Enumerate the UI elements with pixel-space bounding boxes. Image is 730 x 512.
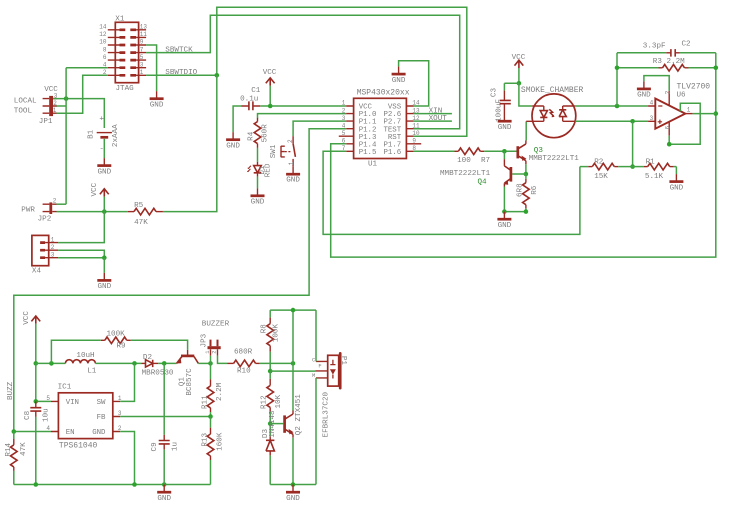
resistor R13 160K <box>202 417 225 461</box>
svg-text:M: M <box>312 373 315 379</box>
svg-text:VCC: VCC <box>91 182 99 196</box>
LED D1 RED <box>247 162 272 177</box>
svg-text:MMBT2222LT1: MMBT2222LT1 <box>440 170 491 178</box>
wire FB pin to divider <box>120 416 210 418</box>
piezo P1 EFBRL37C20 <box>312 353 347 388</box>
capacitor C2 3.3pF <box>617 41 716 57</box>
wire XIN from U1 pin 13 <box>414 113 452 115</box>
svg-text:R5: R5 <box>134 202 144 210</box>
svg-text:10uH: 10uH <box>76 352 94 360</box>
wire op-amp V- pin 6 feedback loop <box>669 103 700 144</box>
wire U1 P1.5 to R2 rail <box>323 151 580 234</box>
wire U1 P1.2 to buzzer enable net BUZZ <box>14 129 346 432</box>
wire battery minus to ground <box>103 139 105 158</box>
svg-text:GND: GND <box>286 495 300 503</box>
svg-text:1: 1 <box>53 107 57 114</box>
wire C1 left to ground <box>233 106 241 132</box>
wire C8 to ground rail <box>35 417 37 485</box>
node Q2 emitter ground <box>291 482 296 487</box>
svg-text:EFBRL37C20: EFBRL37C20 <box>323 391 331 437</box>
svg-text:12: 12 <box>99 31 107 38</box>
wire VCC node to C3 <box>504 83 519 90</box>
svg-text:10u: 10u <box>43 408 51 422</box>
pin header JP3 BUZZER <box>201 321 230 356</box>
svg-text:10K: 10K <box>275 394 283 408</box>
svg-text:TLV2700: TLV2700 <box>677 83 711 92</box>
wire VCC stem <box>103 197 105 212</box>
svg-text:Q3: Q3 <box>534 147 544 155</box>
svg-text:Q2 ZTX451: Q2 ZTX451 <box>295 394 303 435</box>
svg-text:-: - <box>99 145 104 153</box>
svg-text:VIN: VIN <box>66 399 79 407</box>
svg-text:R2: R2 <box>594 158 604 166</box>
wire X1 pin 9 to ground <box>146 45 157 91</box>
capacitor C1 0.1u <box>240 87 261 110</box>
svg-text:GND: GND <box>498 124 512 132</box>
svg-text:3: 3 <box>51 251 55 258</box>
svg-text:10: 10 <box>99 39 107 46</box>
resistor R2 15K <box>580 158 633 181</box>
resistor R3 2.2M <box>617 58 716 71</box>
capacitor C8 10u <box>24 401 50 422</box>
svg-text:2: 2 <box>51 244 55 251</box>
node ground rail right <box>524 209 529 214</box>
wire VCC to X4 pin 1 <box>58 212 104 243</box>
svg-text:SBWTDIO: SBWTDIO <box>165 69 197 77</box>
power symbol VCC at C1 <box>263 69 277 86</box>
wire JP1 pin 2 to VCC vertical <box>57 105 67 107</box>
svg-text:10: 10 <box>412 130 420 137</box>
diode D2 MBR0530 <box>141 354 174 378</box>
svg-text:RED: RED <box>264 163 272 177</box>
ground under B1 <box>97 158 111 176</box>
microcontroller U1 MSP430x20xx <box>339 89 421 169</box>
svg-text:47K: 47K <box>134 219 148 227</box>
node EN / BUZZ / R14 <box>12 429 17 434</box>
svg-text:1: 1 <box>205 350 211 353</box>
svg-text:5.1K: 5.1K <box>645 173 664 181</box>
node ground rail left <box>502 209 507 214</box>
node C8 / VIN <box>34 399 39 404</box>
svg-text:BUZZ: BUZZ <box>7 381 15 400</box>
svg-text:1: 1 <box>342 100 346 107</box>
svg-text:P1.5: P1.5 <box>359 149 377 157</box>
resistor R11 2.2M <box>202 363 225 412</box>
node Q3 base / Q4 collector <box>502 149 507 154</box>
transistor Q4 MMBT2222LT1 <box>440 159 511 186</box>
svg-text:0.1u: 0.1u <box>240 96 258 104</box>
wire JP3 pin 2 to R10 <box>218 356 228 364</box>
node R9 branch <box>49 361 54 366</box>
svg-text:560R: 560R <box>261 124 269 143</box>
node R3 left <box>615 66 620 71</box>
svg-text:6: 6 <box>103 54 107 61</box>
resistor R7 100 <box>455 148 491 165</box>
capacitor C9 1u <box>151 363 180 451</box>
svg-text:GND: GND <box>251 199 265 207</box>
resistor R8 100K <box>261 318 281 352</box>
wire JP3 pin 1 stub <box>210 356 212 364</box>
wire U1 P1.6 to R7 <box>414 150 455 152</box>
svg-text:VCC: VCC <box>44 86 58 94</box>
wire EN pin to BUZZ net <box>14 431 51 433</box>
svg-text:GND: GND <box>637 92 651 100</box>
svg-text:4: 4 <box>650 100 654 107</box>
svg-text:U6: U6 <box>677 92 687 100</box>
wire R14 to ground rail <box>13 471 15 485</box>
ground under Q4 <box>497 212 511 230</box>
ground under X4 <box>97 273 111 291</box>
power symbol VCC at JP2 <box>91 182 109 196</box>
resistor R9 100K <box>101 330 131 350</box>
node VCC / U1 pin1 <box>268 104 273 109</box>
wire SBWTDIO from X1 pin 1 to U1 RST pin 10 <box>146 7 467 136</box>
wire feedback right vertical to output <box>715 53 717 114</box>
diode D3 1N4148 <box>262 410 277 455</box>
wire D1 to ground <box>257 177 259 189</box>
connector X1 <box>99 15 147 93</box>
svg-text:C3: C3 <box>490 88 498 98</box>
wire base node to Q2 base <box>270 423 283 425</box>
svg-text:R12: R12 <box>261 395 269 409</box>
wire R10 to Q2 collector node <box>260 362 293 364</box>
svg-text:3: 3 <box>140 61 144 68</box>
wire Q1 collector to JP3 <box>198 362 210 364</box>
node R10 / Q2 collector <box>291 361 296 366</box>
wire collector node loop top <box>270 310 316 363</box>
wire JP2 pin 1 to R5 <box>57 211 128 213</box>
node X4 ground junction <box>102 255 107 260</box>
wire VIN to VCC node <box>36 400 51 402</box>
svg-text:TOOL: TOOL <box>14 107 33 115</box>
wire U1 P1.4 to op-amp output rail <box>331 114 716 258</box>
node JP1 pin 3 / VCC <box>64 96 69 101</box>
transistor Q1 BC857C <box>176 350 199 396</box>
svg-text:100: 100 <box>457 157 471 165</box>
resistor R6 6R8 <box>516 174 539 208</box>
svg-text:14: 14 <box>99 24 107 31</box>
wire bottom ground rail <box>14 484 211 486</box>
svg-text:D2: D2 <box>143 354 153 362</box>
ground under C9 <box>157 485 171 504</box>
svg-text:B1: B1 <box>88 129 96 139</box>
svg-text:JTAG: JTAG <box>116 85 135 93</box>
wire R9 to Q1 base <box>131 340 188 350</box>
wire Q4 emitter to ground rail <box>503 187 505 212</box>
svg-text:3: 3 <box>342 115 346 122</box>
wire feedback left vertical <box>616 53 618 106</box>
svg-text:C8: C8 <box>24 410 32 420</box>
wire C9 to ground rail <box>163 450 165 485</box>
wire buzzer ground rail <box>270 484 316 486</box>
ground at op-amp pin 2 <box>637 81 651 99</box>
svg-text:R11: R11 <box>202 395 210 409</box>
wire R12 to Q2 base node <box>269 412 271 424</box>
wire R8 bottom to feedback node <box>269 352 271 371</box>
wire Q4 base to Q3 emitter <box>512 173 526 175</box>
svg-text:Q4: Q4 <box>478 178 488 186</box>
wire op-amp output <box>693 113 716 115</box>
resistor R5 47K <box>128 202 163 227</box>
svg-text:47K: 47K <box>20 442 28 456</box>
node VCC rail <box>34 361 39 366</box>
svg-text:R13: R13 <box>202 433 210 447</box>
resistor R12 10K <box>261 379 283 412</box>
svg-text:GND: GND <box>392 77 406 85</box>
svg-text:GND: GND <box>157 495 171 503</box>
node divider tap pin 3 <box>630 119 635 124</box>
svg-text:1: 1 <box>140 69 144 76</box>
svg-text:FB: FB <box>97 414 106 422</box>
node feedback tap pin 4 <box>615 104 620 109</box>
svg-text:2: 2 <box>53 198 57 205</box>
wire U1 VSS pin 14 to ground <box>399 61 429 106</box>
svg-text:SBWTCK: SBWTCK <box>165 47 193 55</box>
svg-text:11: 11 <box>412 122 420 129</box>
svg-text:MSP430x20xx: MSP430x20xx <box>357 89 410 98</box>
svg-text:SW1: SW1 <box>270 144 278 158</box>
svg-text:R8: R8 <box>261 324 269 334</box>
svg-text:C9: C9 <box>151 442 159 452</box>
svg-text:P1: P1 <box>339 356 347 366</box>
wire X4 pin 3 to ground node <box>58 257 104 259</box>
wire VCC stem to rail <box>35 324 37 364</box>
power symbol VCC at smoke chamber <box>512 54 526 68</box>
wire feedback node to piezo F <box>270 370 315 372</box>
svg-text:R6: R6 <box>531 185 539 195</box>
svg-text:2.2M: 2.2M <box>216 382 224 401</box>
node pin 6 loop <box>667 142 672 147</box>
svg-text:5: 5 <box>140 54 144 61</box>
inductor L1 10uH <box>65 352 96 375</box>
svg-text:6R8: 6R8 <box>516 183 524 197</box>
svg-text:IC1: IC1 <box>58 384 72 392</box>
svg-text:5: 5 <box>342 130 346 137</box>
wire feedback node to R12 <box>269 371 271 379</box>
ground at R1 <box>669 174 683 193</box>
svg-text:TPS61040: TPS61040 <box>59 441 98 450</box>
svg-text:VCC: VCC <box>23 311 31 325</box>
svg-text:F: F <box>318 363 321 369</box>
wire JP1 pin 3 to battery plus <box>53 99 104 128</box>
resistor R10 680R <box>227 349 259 376</box>
op-amp U6 TLV2700 <box>648 83 710 136</box>
svg-text:LOCAL: LOCAL <box>14 97 37 105</box>
power symbol VCC at boost converter <box>23 311 40 325</box>
node FB junction <box>208 414 213 419</box>
node JP3 pin 1 <box>208 361 213 366</box>
svg-text:GND: GND <box>226 143 240 151</box>
wire R1 right to ground <box>675 167 677 175</box>
svg-text:R7: R7 <box>481 157 490 165</box>
svg-text:GND: GND <box>286 177 300 185</box>
node Q3 emitter / Q4 base <box>524 172 529 177</box>
wire Q4 collector up to base node <box>503 151 505 159</box>
wire loop top to piezo C <box>315 310 317 361</box>
wire RST pull-up to R5 <box>163 75 217 211</box>
node loop top <box>291 308 296 313</box>
svg-text:11: 11 <box>140 31 148 38</box>
wire SW pin to L1-D2 node <box>120 363 134 401</box>
svg-text:EN: EN <box>66 429 75 437</box>
ground under SW1 <box>286 167 300 185</box>
svg-text:MBR0530: MBR0530 <box>142 370 174 378</box>
svg-text:R3 2.2M: R3 2.2M <box>653 58 685 66</box>
node C8 ground <box>34 482 39 487</box>
wire C1 right to U1 VCC pin 1 <box>260 105 346 107</box>
wire smoke chamber photodiode to op-amp pin 4 <box>575 105 648 107</box>
svg-text:GND: GND <box>670 185 684 193</box>
svg-text:X4: X4 <box>32 267 42 275</box>
svg-text:1: 1 <box>51 236 55 243</box>
wire op-amp V+ pin 2 to ground <box>644 76 669 91</box>
wire Q2 emitter to ground rail <box>292 438 294 485</box>
svg-text:9: 9 <box>412 138 416 145</box>
wire R13 to ground rail <box>210 460 212 485</box>
svg-text:1u: 1u <box>172 442 180 451</box>
svg-text:XOUT: XOUT <box>429 115 448 123</box>
svg-text:GND: GND <box>97 168 111 176</box>
node IC1 ground <box>132 482 137 487</box>
wire VCC stem to C1 net <box>269 86 271 106</box>
node SW branch <box>132 361 137 366</box>
svg-text:MMBT2222LT1: MMBT2222LT1 <box>529 155 580 163</box>
svg-text:3.3pF: 3.3pF <box>643 43 666 51</box>
node Q2 base / D3 <box>268 421 273 426</box>
wire X1 pin 4 to JP1 pin 3 node <box>66 67 108 69</box>
wire U1 P1.0 to R4 <box>258 114 347 119</box>
svg-text:7: 7 <box>140 46 144 53</box>
ground under X1 <box>150 91 164 109</box>
svg-text:R14: R14 <box>5 443 13 457</box>
wire X4 pin 2 to ground node <box>58 250 104 258</box>
wire X1 pin 2 to JP1 pin 1 <box>57 75 108 113</box>
svg-text:100K: 100K <box>107 330 126 338</box>
svg-text:BC857C: BC857C <box>186 368 194 396</box>
svg-text:L1: L1 <box>87 367 97 375</box>
connector X4 <box>32 235 58 275</box>
svg-text:2: 2 <box>287 139 294 143</box>
pin header JP2 <box>21 198 57 224</box>
svg-text:1: 1 <box>288 161 295 165</box>
wire JP2 pin 2 to VCC vertical <box>57 203 67 205</box>
wire R9 branch up <box>51 340 100 363</box>
wire L1 to D2 <box>95 362 141 364</box>
svg-text:U1: U1 <box>368 160 378 168</box>
svg-text:JP1: JP1 <box>39 118 53 126</box>
resistor R4 560R <box>247 118 269 148</box>
wire VCC rail down to C8 <box>35 363 37 401</box>
node VCC / C3 <box>517 81 522 86</box>
wire divider tap down to R1 R2 <box>632 121 634 166</box>
svg-text:R4: R4 <box>247 131 255 141</box>
svg-text:BUZZER: BUZZER <box>202 321 230 329</box>
node R1 R2 junction <box>630 164 635 169</box>
wire R7 to Q3 base <box>484 150 516 152</box>
wire VCC vertical JP1 to JP2 <box>65 68 67 205</box>
wire smoke chamber to op-amp pin 3 <box>575 120 648 122</box>
wire R11 to FB node <box>210 412 212 416</box>
svg-text:SW: SW <box>97 399 106 407</box>
wire loop to R8 <box>269 310 271 318</box>
svg-text:GND: GND <box>97 283 111 291</box>
svg-text:2: 2 <box>665 90 672 94</box>
node R3 right <box>714 66 719 71</box>
svg-text:GND: GND <box>92 429 106 437</box>
svg-text:8: 8 <box>103 46 107 53</box>
ground under C1 <box>226 132 240 150</box>
wire R6 bottom to ground rail <box>504 208 526 211</box>
battery B1 <box>88 115 121 153</box>
capacitor C3 100uF <box>490 88 511 122</box>
wire VCC stem to C3 node <box>518 68 520 83</box>
svg-text:VCC: VCC <box>512 54 526 62</box>
svg-text:P1.6: P1.6 <box>383 149 401 157</box>
node VCC junction at R5 <box>102 209 107 214</box>
wire D3 to ground rail <box>269 455 271 484</box>
svg-text:X1: X1 <box>115 15 125 23</box>
svg-text:C2: C2 <box>682 41 692 49</box>
resistor R14 47K <box>5 432 28 471</box>
node SBWTDIO junction <box>215 73 220 78</box>
svg-text:1N4148: 1N4148 <box>269 410 277 438</box>
resistor R1 5.1K <box>633 158 677 181</box>
ground under D1 <box>251 188 265 206</box>
svg-text:R1: R1 <box>646 158 656 166</box>
wire piezo M to ground rail <box>315 378 317 485</box>
svg-text:160K: 160K <box>217 432 225 451</box>
svg-text:PWR: PWR <box>21 206 35 214</box>
svg-text:3: 3 <box>650 115 654 122</box>
wire XOUT from U1 pin 12 <box>414 120 452 122</box>
svg-text:9: 9 <box>140 39 144 46</box>
wire D2 to Q1 emitter <box>158 362 176 364</box>
svg-text:13: 13 <box>140 24 148 31</box>
wire Q3 collector to smoke chamber LED <box>525 121 527 140</box>
wire X4 ground drop <box>103 258 105 273</box>
svg-text:1: 1 <box>687 107 691 114</box>
wire Q3 emitter down <box>525 164 527 174</box>
svg-text:2xAAA: 2xAAA <box>112 124 120 147</box>
wire U1 P1.1 to SW1 <box>293 121 346 136</box>
svg-text:GND: GND <box>498 222 512 230</box>
node VOUT / C9 branch <box>162 361 167 366</box>
svg-text:C1: C1 <box>251 87 261 95</box>
svg-text:R9: R9 <box>117 343 127 351</box>
svg-text:JP2: JP2 <box>38 215 52 223</box>
svg-text:100uF: 100uF <box>495 99 503 122</box>
svg-text:2: 2 <box>212 350 218 353</box>
svg-text:VCC: VCC <box>263 69 277 77</box>
pin header JP1 <box>14 86 59 126</box>
svg-text:2: 2 <box>342 107 346 114</box>
svg-text:+: + <box>99 115 104 123</box>
ground under C3 <box>498 121 512 132</box>
svg-text:R10: R10 <box>237 367 251 375</box>
wire VCC node to smoke chamber <box>519 83 532 106</box>
svg-text:GND: GND <box>150 102 164 110</box>
node piezo feedback <box>268 369 273 374</box>
wire Q2 collector up <box>292 363 294 410</box>
switch SW1 <box>270 136 296 167</box>
svg-text:JP3: JP3 <box>201 333 209 347</box>
svg-text:SMOKE_CHAMBER: SMOKE_CHAMBER <box>521 86 584 95</box>
transistor Q3 MMBT2222LT1 <box>518 141 579 165</box>
wire IC1 GND to ground rail <box>120 432 134 485</box>
ground above U1 <box>392 67 406 85</box>
transistor Q2 ZTX451 <box>285 391 331 437</box>
wire VCC rail to L1 <box>36 362 66 364</box>
